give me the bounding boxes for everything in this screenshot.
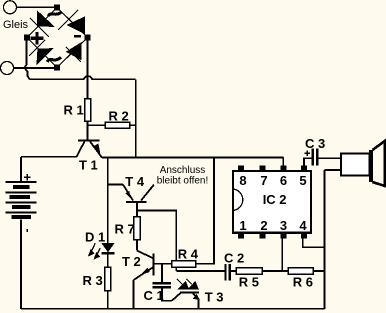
IC2 pin 6 stub	[280, 166, 286, 172]
wire T2 base to R4	[154, 263, 172, 265]
transistor T2 base bar	[152, 253, 154, 275]
wire T4-net to C2	[176, 270, 225, 272]
IC2 pin 7 stub	[259, 166, 265, 172]
battery short plate 1	[13, 185, 30, 189]
IC2 pin 5 stub	[301, 166, 307, 172]
wire junction up to IC pin 3	[281, 237, 283, 272]
svg-text:2: 2	[260, 218, 267, 233]
wire R1/R2 junction	[88, 124, 106, 126]
wire IC pin5 up to C3	[304, 158, 311, 165]
battery short plate 4	[11, 215, 31, 219]
battery short plate 2	[10, 195, 31, 199]
wire R1 to T1 base	[87, 121, 89, 139]
svg-text:C 1: C 1	[144, 288, 164, 303]
bridge corner node right	[85, 35, 91, 41]
wire terminal1 to bridge top	[17, 6, 56, 8]
resistor R3	[105, 267, 111, 291]
svg-text:D 1: D 1	[85, 229, 105, 244]
transistor T1 collector diagonal right	[90, 142, 102, 158]
battery short plate 3	[12, 205, 31, 209]
transistor T2 collector diagonal	[137, 251, 154, 259]
speaker cone bar	[369, 150, 373, 182]
bridge diode bar top-right	[58, 10, 78, 30]
transistor T4 base bar	[126, 201, 147, 203]
wire D1 to R3	[107, 254, 109, 267]
phototransistor T3 base bar	[180, 291, 199, 293]
capacitor C2 plate right	[229, 264, 231, 281]
resistor R6	[288, 268, 313, 274]
bridge minus sign	[74, 35, 81, 38]
wire rail down to D1	[107, 158, 109, 243]
wire T4 branch to T2 collector net	[137, 211, 176, 272]
capacitor C1 plate top	[153, 282, 172, 285]
wire IC pin6 up to rail end	[282, 158, 284, 166]
resistor R4	[172, 261, 196, 267]
bridge diode bar bottom-left	[29, 40, 45, 56]
svg-text:R 4: R 4	[178, 247, 199, 262]
wire battery minus down	[20, 219, 22, 308]
svg-text:R 2: R 2	[109, 108, 129, 123]
IC2 pin 3 stub	[280, 233, 286, 239]
svg-text:R 7: R 7	[115, 222, 135, 237]
battery long plate 3	[6, 201, 37, 203]
T3 light arrow 1	[177, 279, 188, 289]
capacitor C3 plate right	[316, 148, 319, 165]
bridge diode bar top-left	[30, 18, 49, 37]
capacitor C3 plate left	[311, 148, 314, 165]
wire IC pin4 to right bus	[303, 237, 325, 248]
bridge diode triangle top-left	[37, 10, 55, 27]
resistor R5	[236, 268, 262, 274]
transistor T1 arrow	[92, 144, 100, 154]
wire R7 to T2 collector	[136, 240, 138, 251]
wire battery plus to T1 left	[21, 156, 77, 158]
transistor T1 emitter diagonal left	[77, 142, 85, 157]
IC2 pin 4 stub	[301, 233, 307, 239]
bridge AC squiggle top	[48, 12, 62, 17]
wire bridge right corner down to R1	[87, 40, 89, 99]
svg-text:T 3: T 3	[205, 289, 224, 304]
svg-text:Anschluss: Anschluss	[160, 165, 206, 176]
svg-text:5: 5	[299, 173, 306, 188]
wire C3 to speaker	[319, 157, 341, 159]
right bus speaker minus to ground	[324, 170, 326, 309]
LED D1 light arrow 2	[95, 248, 101, 258]
svg-text:T 4: T 4	[125, 174, 145, 189]
battery minus label	[26, 229, 28, 232]
IC2 body	[233, 171, 311, 233]
transistor T2 emitter diagonal	[134, 267, 154, 280]
battery long plate 4	[6, 211, 37, 213]
wire long plus rail to IC pin6	[102, 157, 283, 159]
svg-text:C 3: C 3	[305, 136, 325, 151]
svg-text:bleibt offen!: bleibt offen!	[157, 175, 209, 186]
svg-text:Gleis: Gleis	[3, 19, 29, 31]
bridge rectifier GL1 diamond edges	[27, 8, 88, 68]
bridge plus sign	[31, 32, 44, 45]
IC2 notch	[233, 189, 243, 211]
wire right bus to speaker	[325, 169, 342, 171]
wire R6 to right bus	[313, 270, 324, 272]
capacitor C2 plate left	[224, 264, 226, 281]
transistor T3 collector diagonal to C1 wire	[172, 293, 181, 301]
wire R3 to ground bus	[107, 291, 109, 309]
bridge diode triangle bottom-left	[36, 48, 53, 65]
resistor R2	[105, 122, 130, 128]
bridge corner node top	[54, 5, 60, 11]
IC2 pin 2 stub	[259, 233, 265, 239]
ground bus bottom	[21, 308, 325, 310]
bridge diode triangle bottom-right	[66, 42, 82, 60]
svg-text:IC 2: IC 2	[263, 192, 287, 207]
terminal circle lower (track connection)	[1, 62, 14, 75]
wire R5 to R6 with junction to pin3	[262, 270, 288, 272]
transistor T4 emitter diagonal	[123, 185, 133, 201]
IC2 pin 8 stub	[238, 166, 244, 172]
battery plus label	[24, 174, 31, 181]
svg-text:4: 4	[299, 218, 307, 233]
wire T2 emitter to ground	[133, 280, 135, 309]
battery symbol	[20, 157, 22, 181]
wire D1 branch to T4 emitter	[108, 184, 123, 186]
LED D1 cathode bar	[102, 252, 115, 254]
svg-text:R 5: R 5	[239, 274, 259, 289]
terminal circle upper (track connection)	[4, 1, 17, 14]
wire plus rail corner down	[135, 79, 137, 157]
wire R2 right to rail	[130, 124, 136, 126]
LED D1 triangle	[102, 243, 115, 252]
svg-text:8: 8	[239, 173, 246, 188]
battery long plate 2	[6, 191, 37, 193]
capacitor C1 plate bottom	[153, 286, 172, 289]
svg-text:R 6: R 6	[293, 274, 313, 289]
transistor T3 emitter with arrow	[193, 293, 199, 308]
resistor R1	[85, 99, 91, 122]
wire R4 right up to rail	[196, 158, 215, 265]
bridge corner node left	[24, 35, 30, 41]
transistor T3 arrow head	[193, 294, 200, 300]
wire C1 bottom to T3	[162, 289, 172, 301]
transistor T4 arrow	[125, 191, 130, 198]
resistor R7	[134, 217, 141, 240]
LED D1 light arrow 1	[89, 243, 95, 255]
bridge corner node bottom	[54, 65, 60, 71]
svg-text:3: 3	[280, 218, 287, 233]
battery long plate 1	[6, 181, 37, 183]
transistor T1 base bar	[78, 139, 100, 141]
speaker LS1 body	[341, 154, 370, 176]
wire C2 to R5	[231, 270, 236, 272]
transistor T4 collector open diagonal	[141, 185, 154, 201]
IC2 pin 1 stub	[238, 233, 244, 239]
wire T4 base down	[136, 202, 138, 217]
svg-text:T 1: T 1	[79, 158, 98, 173]
wire bridge left corner down with hop over terminal2 wire	[25, 40, 30, 79]
svg-text:C 2: C 2	[224, 250, 244, 265]
speaker cone flare	[373, 141, 385, 186]
transistor T2 arrow	[140, 268, 149, 276]
C3 plus mark	[305, 151, 311, 157]
wire T2 base down to C1	[161, 264, 163, 282]
bridge diode bar bottom-right	[66, 47, 81, 62]
svg-text:R 1: R 1	[64, 103, 84, 118]
bridge diode triangle top-right	[67, 16, 86, 34]
svg-text:7: 7	[260, 173, 267, 188]
bridge AC squiggle bottom	[47, 57, 61, 62]
svg-text:T 2: T 2	[122, 254, 141, 269]
T3 light arrow 2	[186, 279, 197, 289]
wire terminal2 to bridge bottom corner (crosses + line)	[14, 67, 55, 69]
svg-text:R 3: R 3	[83, 273, 103, 288]
wire plus rail horizontal with hop over minus vertical	[30, 76, 136, 79]
svg-text:6: 6	[280, 173, 287, 188]
svg-text:1: 1	[239, 218, 246, 233]
